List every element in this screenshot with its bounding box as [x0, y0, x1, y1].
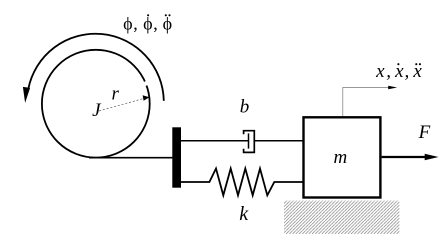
svg-text:m: m — [334, 147, 348, 168]
svg-text:,: , — [386, 61, 391, 82]
svg-text:,: , — [405, 61, 410, 82]
damper rod right — [254, 140, 303, 142]
r arrowhead — [143, 95, 150, 101]
svg-text:,: , — [153, 14, 158, 34]
rope from pulley to anchor bar — [89, 157, 173, 159]
mass box m — [304, 117, 381, 197]
rotation arc — [28, 34, 163, 101]
svg-text:F: F — [418, 122, 431, 143]
spring k — [181, 169, 303, 196]
damper cylinder — [244, 131, 255, 153]
damper piston — [248, 133, 250, 148]
damper rod left — [181, 140, 249, 142]
svg-text:ϕ: ϕ — [123, 14, 132, 34]
rotation arrowhead — [23, 87, 30, 103]
svg-text:k: k — [239, 203, 249, 225]
svg-text:x: x — [375, 61, 385, 82]
anchor bar — [172, 127, 181, 187]
svg-text:r: r — [112, 83, 120, 104]
x dots — [397, 63, 399, 65]
r leader line — [99, 98, 145, 111]
force F arrow — [382, 156, 426, 158]
phi dots — [147, 14, 149, 16]
pulley disk J — [42, 50, 150, 158]
svg-text:ϕ: ϕ — [163, 14, 172, 34]
label phi phidot phiddot — [123, 14, 172, 34]
svg-text:ϕ: ϕ — [143, 14, 152, 34]
svg-text:b: b — [240, 96, 250, 117]
gap in pulley rim near r arrow — [145, 82, 147, 86]
F arrowhead — [425, 154, 439, 161]
x axis leader — [343, 88, 390, 117]
label x xdot xddot — [375, 61, 422, 82]
x axis arrowhead — [388, 86, 397, 90]
svg-text:,: , — [133, 14, 138, 34]
